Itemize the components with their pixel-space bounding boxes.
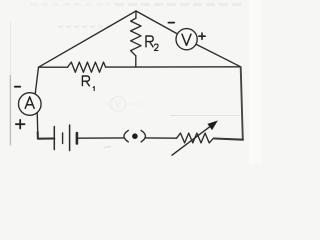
resistor R2 zigzag — [131, 18, 141, 56]
voltmeter plus label — [199, 33, 205, 39]
ammeter A1 circle — [19, 93, 42, 116]
wire: bottom-left corner to battery — [38, 137, 54, 139]
label R2 subscript 2 — [154, 44, 158, 50]
wire: right vertical side — [241, 67, 243, 140]
rheostat zigzag — [177, 133, 214, 143]
wire: battery to plug key — [77, 137, 124, 139]
wire: bottom-right emphasis — [215, 139, 243, 140]
wire: apex to voltmeter diagonal — [136, 11, 179, 35]
rheostat arrow shaft — [172, 126, 211, 155]
faint bleedthrough text band mid-left — [58, 25, 113, 28]
voltmeter letter V — [182, 34, 191, 46]
ammeter letter A — [25, 97, 34, 109]
wire: rheostat to bottom-right corner — [213, 138, 242, 139]
wire: bottom-left corner emphasis — [38, 132, 55, 139]
label R2 letter R — [146, 36, 153, 47]
faint horizontal bleed line above rheostat — [170, 115, 240, 117]
label R1 subscript 1 — [93, 87, 94, 91]
paper background — [0, 0, 261, 164]
wire: ammeter bottom down to bottom-left corner — [36, 113, 39, 139]
wire: middle horizontal left of R1 — [39, 66, 68, 68]
faint vertical rule at left — [9, 75, 11, 146]
wire: apex to left corner diagonal — [39, 11, 137, 67]
plug key dot — [132, 133, 138, 139]
ammeter plus label — [16, 120, 25, 129]
rheostat arrow head — [208, 121, 217, 129]
wire: voltmeter to right corner diagonal — [195, 44, 240, 67]
voltmeter minus label — [168, 22, 174, 24]
wire: R2 bottom to middle wire junction — [135, 56, 137, 67]
wire: apex down to R2 top — [135, 11, 137, 18]
voltmeter U1 circle — [176, 29, 197, 50]
resistor R1 zigzag — [68, 62, 106, 72]
wire: plug key to rheostat — [145, 137, 176, 139]
wire: middle horizontal right of R1 to right corner — [106, 66, 241, 68]
ammeter minus label — [15, 86, 20, 88]
plug key K1 brackets — [124, 130, 146, 142]
battery B1 plates — [54, 125, 77, 151]
ghost voltmeter bleedthrough — [101, 97, 141, 112]
faint bleedthrough smudge below key — [104, 147, 111, 148]
faint bleedthrough smudge top — [30, 3, 110, 6]
label R1 letter R — [82, 76, 89, 86]
wire: left corner down to ammeter — [35, 67, 38, 94]
